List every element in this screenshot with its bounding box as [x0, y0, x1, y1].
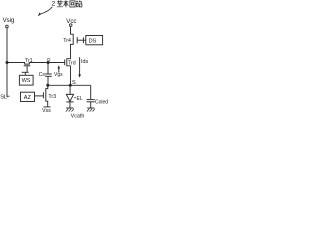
svg-text:Vcc: Vcc [66, 18, 76, 25]
svg-text:EL: EL [77, 96, 83, 102]
svg-text:Trd: Trd [68, 61, 76, 67]
svg-text:Ids: Ids [81, 59, 88, 65]
svg-text:G: G [47, 57, 51, 63]
svg-text:DS: DS [89, 38, 97, 44]
svg-text:S: S [72, 80, 76, 86]
svg-text:Coled: Coled [95, 99, 108, 105]
svg-text:SL: SL [0, 94, 8, 100]
svg-text:2: 2 [52, 1, 56, 8]
svg-text:Vss: Vss [42, 108, 51, 114]
svg-text:AZ: AZ [24, 95, 32, 101]
svg-text:Tr1: Tr1 [25, 58, 33, 64]
svg-text:Vgs: Vgs [54, 72, 63, 78]
svg-text:WS: WS [22, 78, 31, 84]
svg-text:Vsig: Vsig [3, 17, 15, 24]
svg-text:Cs: Cs [39, 72, 46, 78]
svg-text:Vcath: Vcath [71, 114, 85, 120]
svg-text:Tr4: Tr4 [63, 38, 71, 44]
svg-text:Tr3: Tr3 [48, 94, 56, 100]
